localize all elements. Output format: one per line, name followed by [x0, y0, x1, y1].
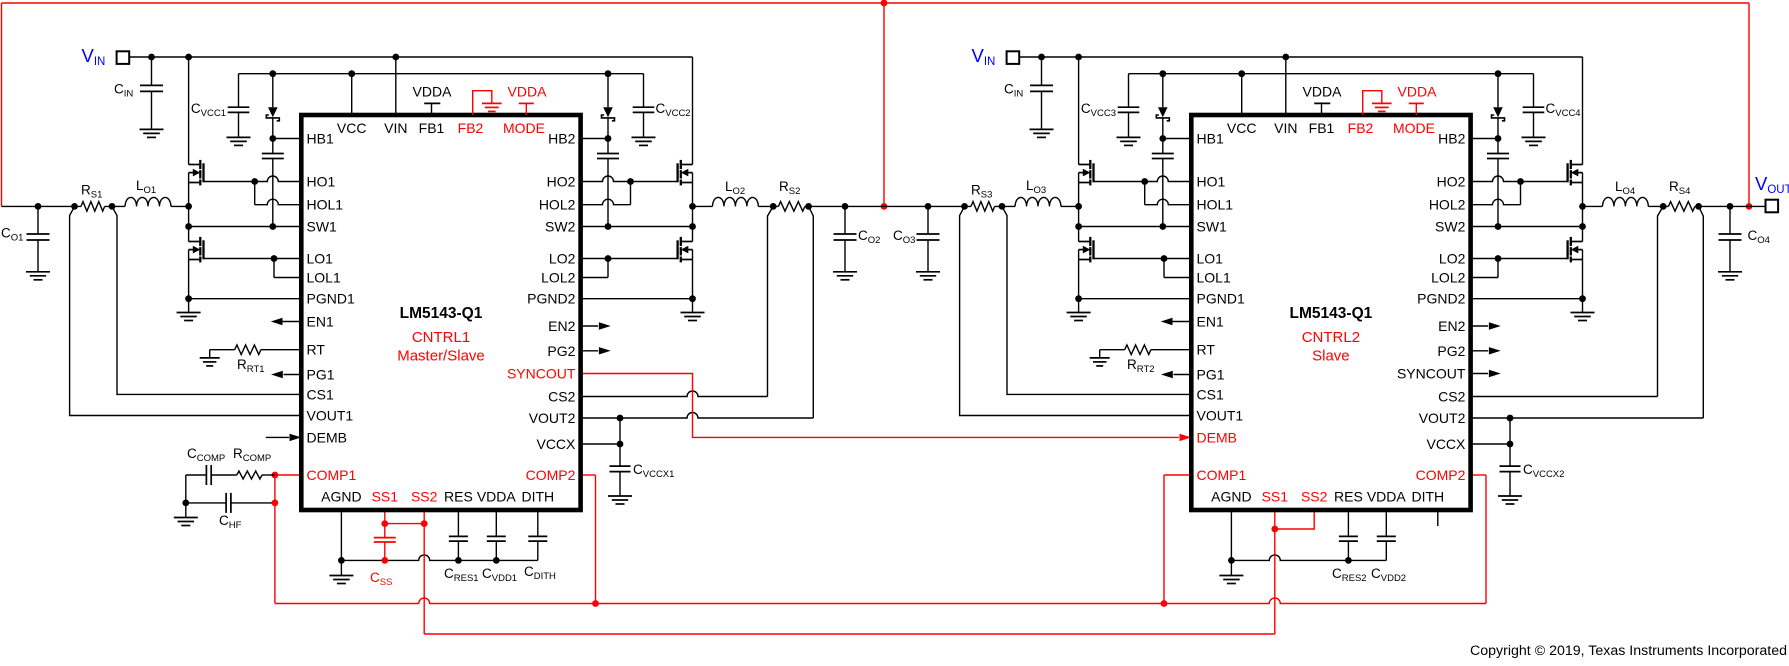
- svg-text:VIN: VIN: [1274, 120, 1297, 136]
- node VCC-pin junction: [348, 70, 355, 77]
- svg-text:LOL1: LOL1: [1197, 270, 1231, 286]
- svg-text:SS1: SS1: [1262, 489, 1289, 505]
- transistor low-side NMOS Q2: [189, 237, 204, 263]
- svg-text:HOL2: HOL2: [539, 197, 576, 213]
- svg-text:RES: RES: [1334, 489, 1363, 505]
- node VCC-pin junction: [1238, 70, 1245, 77]
- svg-text:LOL1: LOL1: [307, 270, 341, 286]
- svg-text:Master/Slave: Master/Slave: [397, 348, 485, 365]
- node VOUT-top junction: [881, 0, 888, 6]
- label LO3: [1026, 178, 1046, 196]
- node SW phase-A: [185, 203, 192, 210]
- wire SW1 pin: [189, 226, 302, 228]
- svg-text:VDDA: VDDA: [1303, 84, 1343, 100]
- svg-text:AGND: AGND: [1211, 489, 1251, 505]
- svg-text:SW1: SW1: [1197, 219, 1228, 235]
- node SW1 junction: [1075, 223, 1082, 230]
- svg-text:HB2: HB2: [1438, 131, 1465, 147]
- svg-text:HOL1: HOL1: [307, 197, 344, 213]
- node HB1 junction: [269, 135, 276, 142]
- op-amp U2 LM5143-Q1 CNTRL2 body: [1191, 115, 1470, 510]
- node SW1 junction: [185, 223, 192, 230]
- U2 pin labels and title: [1197, 120, 1467, 505]
- svg-text:Slave: Slave: [1312, 348, 1350, 365]
- wire PGND2 stem: [1582, 299, 1584, 313]
- svg-text:SYNCOUT: SYNCOUT: [1397, 366, 1466, 382]
- svg-text:VDDA: VDDA: [477, 489, 517, 505]
- node CHB-SW1 junction: [269, 223, 276, 230]
- node CS-sense tap B: [770, 203, 777, 210]
- svg-text:SW2: SW2: [545, 219, 576, 235]
- wire RT ground link: [210, 350, 235, 358]
- svg-text:FB1: FB1: [1309, 120, 1335, 136]
- svg-text:LO2: LO2: [1439, 251, 1466, 267]
- svg-text:CNTRL1: CNTRL1: [412, 329, 470, 346]
- terminal VIN square: [117, 51, 130, 64]
- node LO2-LOL2 junction: [1495, 255, 1502, 262]
- label CO3: [893, 228, 915, 246]
- label CVCC1: [191, 101, 226, 119]
- svg-text:SS1: SS1: [372, 489, 399, 505]
- svg-text:HOL2: HOL2: [1429, 197, 1466, 213]
- wire COMP1 pin (red): [275, 474, 301, 476]
- ground CIN: [140, 129, 164, 137]
- wire HB1 pin: [273, 138, 302, 140]
- ground FB2 (red): [473, 91, 502, 115]
- svg-text:LO1: LO1: [307, 251, 334, 267]
- ground CVCC2: [632, 137, 656, 145]
- label CO2: [858, 228, 880, 246]
- terminal VIN square: [1007, 51, 1020, 64]
- node VOUT-rail mid junction: [881, 203, 888, 210]
- node PGND2 junction: [1579, 295, 1586, 302]
- svg-text:CS1: CS1: [1197, 386, 1224, 402]
- svg-text:SYNCOUT: SYNCOUT: [507, 366, 576, 382]
- svg-text:PG2: PG2: [1437, 343, 1465, 359]
- inductor LO3: [1015, 197, 1061, 206]
- wire rail phase-A mid: [105, 205, 125, 207]
- node PGND2 junction: [689, 295, 696, 302]
- svg-text:RT: RT: [1197, 342, 1216, 358]
- svg-text:VOUT1: VOUT1: [1197, 408, 1244, 424]
- wire SW2 pin: [581, 226, 693, 228]
- wire VOUT2 sense: [1471, 206, 1704, 418]
- wire CS2 sense: [581, 206, 774, 396]
- diode bootstrap D3: [1156, 74, 1169, 139]
- capacitor CVDD1: [487, 510, 506, 560]
- resistor RCOMP: [237, 471, 275, 479]
- node HO1-HOL1 junction: [251, 178, 258, 185]
- node VCC-D1 junction: [1159, 70, 1166, 77]
- node CO tap A: [925, 203, 932, 210]
- node VCC-D1 junction: [269, 70, 276, 77]
- wire VCC rail: [1129, 73, 1534, 75]
- svg-text:COMP2: COMP2: [1416, 467, 1466, 483]
- svg-text:VOUT1: VOUT1: [307, 408, 354, 424]
- node VOUT-rail right junction: [1746, 203, 1753, 210]
- node VOUT2-VCCX junction: [1507, 415, 1514, 422]
- svg-text:VDDA: VDDA: [1398, 84, 1438, 100]
- node AGND junction IC1: [338, 557, 345, 564]
- wire rail phase-A in: [2, 205, 82, 207]
- label RCOMP: [233, 446, 271, 464]
- transistor high-side NMOS Q1: [189, 160, 204, 186]
- node VIN-Q-HS junction: [185, 54, 192, 61]
- node VCC-D2 junction: [605, 70, 612, 77]
- svg-text:PGND2: PGND2: [527, 291, 575, 307]
- svg-text:PGND1: PGND1: [307, 291, 355, 307]
- node SW2 junction: [1579, 223, 1586, 230]
- wire AGND stem IC1: [340, 510, 342, 560]
- label LO1: [136, 178, 156, 196]
- svg-text:CS1: CS1: [307, 386, 334, 402]
- wire LOL1 pin: [1164, 277, 1191, 279]
- wire rail L-CS tap: [1648, 205, 1668, 207]
- wire rail phase-B from SW: [693, 205, 713, 207]
- svg-text:RES: RES: [444, 489, 473, 505]
- wire PGND2 stem: [692, 299, 694, 313]
- label RRT1: [237, 357, 265, 375]
- capacitor CVCC2: [633, 74, 655, 138]
- capacitor CHF: [186, 493, 275, 513]
- wire VIN rail: [129, 56, 692, 58]
- transistor low-side NMOS Q4: [1079, 237, 1094, 263]
- wire VIN pin stub: [1285, 57, 1287, 115]
- svg-text:FB2: FB2: [458, 120, 484, 136]
- capacitor CO1: [27, 206, 50, 271]
- wire Q4 source to PGND: [692, 250, 694, 299]
- wire HOL2 pin: [1471, 199, 1521, 205]
- ground RRT: [200, 358, 220, 366]
- svg-text:HO2: HO2: [547, 174, 576, 190]
- wire VOUT feedback top (red): [2, 3, 1750, 206]
- wire VIN drop to HS: [692, 57, 694, 165]
- ground AGND IC2: [1219, 576, 1243, 584]
- svg-text:HB2: HB2: [548, 131, 575, 147]
- node CHB-SW1 junction: [1159, 223, 1166, 230]
- wire comp corner: [185, 475, 187, 503]
- ground CVCC3: [1117, 137, 1141, 145]
- capacitor CVCCX2: [1500, 444, 1521, 496]
- node CO4 tap: [1727, 203, 1734, 210]
- wire HOL1 pin: [1145, 199, 1192, 205]
- node CS-sense tap A: [999, 203, 1006, 210]
- inductor LO2: [713, 197, 759, 206]
- resistor RS2: [778, 202, 805, 212]
- pin EN2 arrow: [1471, 322, 1501, 329]
- terminal VDDA (FB1): [1314, 103, 1330, 115]
- svg-text:FB1: FB1: [419, 120, 445, 136]
- wire Q3 source to SW: [1078, 173, 1080, 207]
- svg-text:MODE: MODE: [1393, 120, 1435, 136]
- svg-text:CS2: CS2: [1438, 389, 1465, 405]
- node VOUT-sense tap B: [1695, 203, 1702, 210]
- wire HOL2 pin: [581, 199, 631, 205]
- node SS1 junction (red): [381, 520, 388, 527]
- svg-text:PG1: PG1: [307, 367, 335, 383]
- wire PGND1 stem: [1078, 299, 1080, 313]
- wire rail phase-A mid: [995, 205, 1015, 207]
- label CVCC4: [1546, 101, 1581, 119]
- wire HB1 pin: [1163, 138, 1192, 140]
- node VOUT-sense tap A: [71, 203, 78, 210]
- svg-text:VIN: VIN: [384, 120, 407, 136]
- label VOUT (blue): [1755, 173, 1789, 196]
- svg-text:EN1: EN1: [307, 314, 334, 330]
- label CCOMP: [187, 446, 225, 464]
- wire rail L-CS tap: [758, 205, 778, 207]
- label VDDA (FB1): [413, 84, 453, 100]
- wire LO1 pin: [1094, 258, 1192, 260]
- svg-text:HO1: HO1: [1197, 174, 1226, 190]
- node CHF junction (red): [272, 500, 279, 507]
- svg-text:COMP2: COMP2: [526, 467, 576, 483]
- wire LOL1 tie: [273, 259, 275, 278]
- wire rail phase-2B out: [1695, 205, 1766, 207]
- svg-text:PGND1: PGND1: [1197, 291, 1245, 307]
- node VIN-Q-HS junction: [1075, 54, 1082, 61]
- node CS-sense tap A: [109, 203, 116, 210]
- wire SS1-SS2 tie (red): [385, 523, 424, 525]
- label CVCCX2: [1523, 462, 1564, 480]
- diode bootstrap D4: [1492, 74, 1505, 139]
- node LO1-LOL1 junction: [1161, 255, 1168, 262]
- pin SYNCOUT arrow (output stub): [1471, 370, 1501, 377]
- node SW phase-A: [1075, 203, 1082, 210]
- wire LOL2 pin: [581, 277, 608, 279]
- svg-text:DITH: DITH: [521, 489, 554, 505]
- inductor LO1: [125, 197, 171, 206]
- pin EN1 arrow: [271, 318, 302, 325]
- svg-text:PG2: PG2: [547, 343, 575, 359]
- wire Q5 source to SW: [1582, 173, 1584, 207]
- node CHB-SW2 junction: [605, 223, 612, 230]
- svg-text:LM5143-Q1: LM5143-Q1: [400, 305, 483, 322]
- wire PGND2 pin: [1471, 298, 1583, 300]
- label CVCC2: [656, 101, 691, 119]
- wire COMP1 drop (red): [274, 475, 276, 604]
- svg-text:VCCX: VCCX: [536, 436, 576, 452]
- transistor high-side NMOS Q3: [678, 160, 693, 186]
- ground FB2 (red): [1363, 91, 1392, 115]
- svg-text:VCC: VCC: [1227, 120, 1257, 136]
- label copyright: [1470, 643, 1787, 659]
- node CVDD1 junction: [493, 557, 500, 564]
- svg-text:HB1: HB1: [1197, 131, 1224, 147]
- svg-text:HB1: HB1: [307, 131, 334, 147]
- svg-text:PG1: PG1: [1197, 367, 1225, 383]
- svg-text:VOUT2: VOUT2: [529, 410, 576, 426]
- diode bootstrap D2: [602, 74, 615, 139]
- svg-text:DEMB: DEMB: [1197, 429, 1237, 445]
- svg-text:EN2: EN2: [1438, 318, 1465, 334]
- capacitor bootstrap CHB4: [1487, 139, 1509, 227]
- wire LOL2 tie: [1497, 259, 1499, 278]
- wire VIN pin stub: [395, 57, 397, 115]
- node VOUT-sense tap B: [805, 203, 812, 210]
- node VOUT-sense tap A: [961, 203, 968, 210]
- transistor low-side NMOS Q4: [678, 237, 693, 263]
- terminal VDDA (MODE, red): [519, 103, 534, 115]
- label RRT2: [1127, 357, 1155, 375]
- wire LO2 pin: [1471, 258, 1568, 260]
- capacitor CRES2: [1339, 510, 1358, 560]
- transistor high-side NMOS Q3: [1079, 160, 1094, 186]
- capacitor CIN: [140, 57, 163, 129]
- svg-text:COMP1: COMP1: [1197, 467, 1247, 483]
- wire LO2 pin: [581, 258, 678, 260]
- wire VOUT1 sense: [70, 206, 302, 415]
- wire SW2 pin: [1471, 226, 1583, 228]
- node VCC-D2 junction: [1495, 70, 1502, 77]
- ground CVCCX1: [608, 496, 632, 504]
- node CRES2 junction: [1345, 557, 1352, 564]
- node VIN-pin junction: [392, 54, 399, 61]
- node VIN-CIN junction: [148, 54, 155, 61]
- resistor RS3: [971, 202, 995, 212]
- wire CS1 sense: [1002, 206, 1191, 394]
- wire VOUT2 sense: [581, 206, 814, 418]
- node CRES1 junction: [455, 557, 462, 564]
- resistor RS1: [81, 202, 105, 212]
- node CO tap A: [35, 203, 42, 210]
- label VDDA (FB1): [1303, 84, 1343, 100]
- svg-text:COMP1: COMP1: [307, 467, 357, 483]
- svg-text:Copyright © 2019, Texas Instru: Copyright © 2019, Texas Instruments Inco…: [1470, 643, 1787, 659]
- label CIN: [1004, 82, 1023, 100]
- wire HOL1 pin: [255, 199, 302, 205]
- inductor LO4: [1603, 197, 1649, 206]
- node AGND junction IC2: [1228, 557, 1235, 564]
- wire SYNCOUT to DEMB (red): [581, 374, 1192, 442]
- wire Q6 source to PGND: [1582, 250, 1584, 299]
- resistor RS4: [1668, 202, 1695, 212]
- capacitor CO2: [834, 206, 857, 271]
- wire AGND ground stem IC1: [340, 560, 342, 575]
- svg-text:RT: RT: [307, 342, 326, 358]
- wire rail phase-A to SW: [171, 205, 189, 207]
- capacitor CVCCX1: [610, 444, 631, 496]
- wire VOUT mid drop (red): [883, 3, 885, 206]
- ground AGND IC1: [329, 576, 353, 584]
- terminal VOUT square: [1766, 200, 1779, 213]
- wire Q4 source to PGND: [1078, 250, 1080, 299]
- label VIN (blue): [82, 45, 106, 68]
- wire COMP bus (red): [275, 598, 1486, 603]
- node HO1-HOL1 junction: [1141, 178, 1148, 185]
- pin PG1 arrow: [271, 371, 301, 378]
- node PGND1 junction: [1075, 295, 1082, 302]
- ground CVCCX2: [1498, 496, 1522, 504]
- label VDDA (MODE, red): [508, 84, 548, 100]
- svg-text:VCCX: VCCX: [1426, 436, 1466, 452]
- capacitor bootstrap CHB3: [1152, 139, 1174, 227]
- label CRES1: [444, 566, 479, 584]
- svg-text:CNTRL2: CNTRL2: [1302, 329, 1360, 346]
- ground RRT: [1090, 358, 1110, 366]
- wire RT pin: [261, 349, 301, 351]
- label CO1: [1, 226, 23, 244]
- node HB2 junction: [1495, 135, 1502, 142]
- node CHF-gnd junction: [182, 500, 189, 507]
- wire SW2 vertical: [692, 206, 694, 241]
- op-amp U1 LM5143-Q1 CNTRL1 body: [301, 115, 580, 510]
- ground CHF: [174, 518, 198, 526]
- svg-text:LOL2: LOL2: [541, 270, 575, 286]
- label CHF: [219, 513, 242, 531]
- svg-text:PGND2: PGND2: [1417, 291, 1465, 307]
- wire CS1 sense: [112, 206, 301, 394]
- node HB2 junction: [605, 135, 612, 142]
- label CVDD2: [1371, 566, 1406, 584]
- node SW2 junction: [689, 223, 696, 230]
- svg-text:VCC: VCC: [337, 120, 367, 136]
- wire RT pin: [1151, 349, 1191, 351]
- node CSS-AGND junction (red): [381, 557, 388, 564]
- wire VIN rail: [1019, 56, 1582, 58]
- svg-text:EN2: EN2: [548, 318, 575, 334]
- wire AGND bus IC1: [341, 555, 537, 561]
- ground CO3: [916, 272, 940, 280]
- label CIN: [114, 82, 133, 100]
- ground CO1: [26, 272, 50, 280]
- wire COMP2 pin IC1 (red): [581, 475, 596, 604]
- wire rail phase-B from SW: [1583, 205, 1603, 207]
- svg-text:VOUT2: VOUT2: [1419, 410, 1466, 426]
- node CO2 tap: [842, 203, 849, 210]
- svg-text:EN1: EN1: [1197, 314, 1224, 330]
- node SS1-SS2 junction IC2 (red): [1271, 526, 1278, 533]
- pin DEMB arrow (input stub): [266, 434, 302, 441]
- wire VIN drop to HS: [1582, 57, 1584, 165]
- node SS2 junction (red): [421, 520, 428, 527]
- wire PGND2 pin: [581, 298, 693, 300]
- wire SS1 stub IC1 (red): [384, 510, 386, 524]
- transistor low-side NMOS Q6: [1568, 237, 1583, 263]
- label CDITH: [524, 564, 556, 582]
- wire HOL2 tie: [630, 182, 632, 205]
- wire Q1 source to SW: [188, 173, 190, 207]
- ground PGND1: [177, 313, 201, 321]
- node COMP1-bus junction IC2 (red): [1161, 600, 1168, 607]
- node COMP2-bus junction (red): [592, 600, 599, 607]
- wire Q1 drain: [188, 57, 190, 165]
- svg-text:SS2: SS2: [1301, 489, 1328, 505]
- wire SW2 vertical: [1582, 206, 1584, 241]
- ground CVCC1: [227, 137, 251, 145]
- terminal VDDA (MODE, red): [1409, 103, 1424, 115]
- pin PG1 arrow: [1161, 371, 1191, 378]
- label CO4: [1748, 228, 1770, 246]
- capacitor CVCC4: [1523, 74, 1545, 138]
- capacitor CDITH: [528, 510, 547, 560]
- label LO4: [1615, 179, 1635, 197]
- svg-text:LO1: LO1: [1197, 251, 1224, 267]
- wire VCC pin stub: [1241, 74, 1243, 115]
- wire AGND stem IC2: [1230, 510, 1232, 560]
- svg-text:FB2: FB2: [1348, 120, 1374, 136]
- node SW phase-B: [689, 203, 696, 210]
- wire HO1 pin: [1094, 176, 1192, 182]
- wire LO1 pin: [204, 258, 302, 260]
- node CHB-SW2 junction: [1495, 223, 1502, 230]
- wire rail mid section: [805, 205, 928, 207]
- pin EN2 arrow: [581, 322, 611, 329]
- wire COMP1 pin IC2 (red): [1164, 475, 1191, 604]
- wire HOL2 tie: [1520, 182, 1522, 205]
- ground CVCC4: [1522, 137, 1546, 145]
- wire SW1 vertical: [1078, 206, 1080, 241]
